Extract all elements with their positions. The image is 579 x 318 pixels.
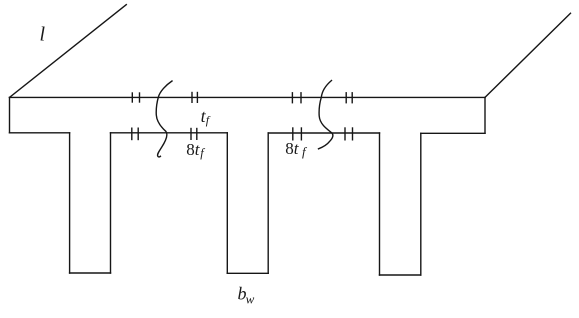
svg-text:w: w: [246, 292, 255, 307]
break line squiggle 2: [319, 81, 333, 149]
web W3 left side: [379, 133, 381, 275]
right diagonal slab edge line: [485, 13, 571, 97]
svg-text:f: f: [200, 146, 205, 160]
left diagonal slab edge line: [10, 5, 127, 98]
right overhang soffit: [421, 132, 485, 134]
tick pair top line right of break 1: [192, 93, 197, 103]
tick pair top line right of break 2: [346, 93, 352, 103]
svg-text:f: f: [206, 113, 211, 127]
tick pair top line left of break 1: [132, 93, 139, 102]
label 8t_f right bay: [285, 139, 308, 159]
web W1 right side: [110, 133, 112, 273]
tick pair soffit line left of break 2: [293, 128, 302, 140]
svg-text:8t: 8t: [186, 140, 201, 159]
web W3 right side: [420, 133, 422, 275]
label b_w (web width): [238, 283, 255, 306]
slab soffit between web W1 and web W2: [111, 132, 228, 134]
tick pair soffit line left of break 1: [132, 128, 138, 139]
slab top edge: [10, 96, 486, 98]
svg-text:l: l: [40, 24, 46, 46]
web W3 bottom: [380, 274, 421, 276]
slab left end edge: [9, 97, 11, 132]
tick pair top line left of break 2: [292, 93, 301, 103]
tick pair soffit line right of break 1: [191, 129, 197, 140]
break line squiggle 1: [156, 81, 172, 157]
web W2 right side: [267, 133, 269, 273]
left overhang soffit: [10, 132, 70, 134]
web W1 bottom: [70, 272, 111, 274]
label t_f (flange thickness): [201, 106, 211, 127]
svg-text:f: f: [302, 144, 308, 159]
web W2 bottom: [227, 272, 268, 274]
web W2 left side: [226, 133, 228, 273]
web W1 left side: [69, 133, 71, 273]
svg-text:8t: 8t: [285, 139, 300, 158]
tick pair soffit line right of break 2: [345, 128, 353, 140]
label 8t_f left bay: [186, 140, 205, 160]
slab soffit between web W2 and web W3: [268, 132, 379, 134]
slab right end edge: [484, 97, 486, 133]
